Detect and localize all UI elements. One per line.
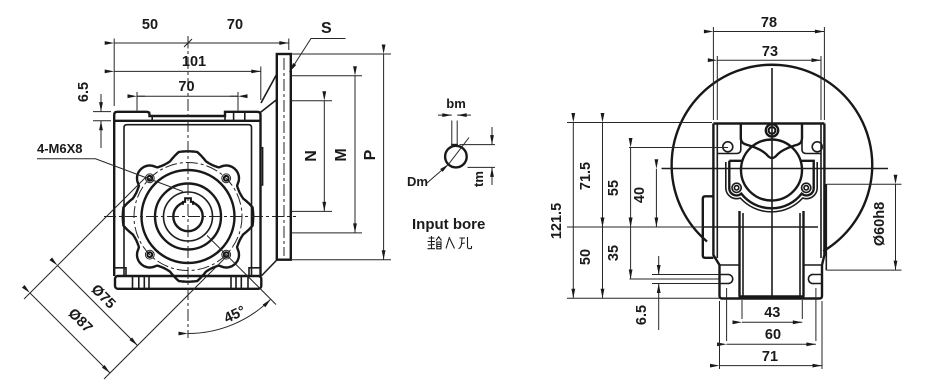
svg-text:121.5: 121.5 bbox=[549, 203, 565, 239]
diagonal extension line lower (tangent) bbox=[104, 255, 228, 379]
extension lines 73 bbox=[717, 56, 821, 120]
dimension 55 bbox=[606, 148, 631, 228]
dimension 71.5 bbox=[578, 123, 603, 228]
Dm leader through bore bbox=[427, 164, 449, 183]
svg-text:Ø60h8: Ø60h8 bbox=[872, 202, 888, 246]
svg-text:71: 71 bbox=[762, 349, 778, 365]
dimension 101 bbox=[114, 54, 261, 71]
svg-text:6.5: 6.5 bbox=[76, 82, 92, 102]
svg-text:35: 35 bbox=[606, 245, 622, 261]
dimension 121.5 bbox=[549, 123, 573, 299]
svg-text:40: 40 bbox=[632, 187, 648, 203]
svg-text:4-M6X8: 4-M6X8 bbox=[37, 141, 83, 156]
column side lines bbox=[740, 211, 804, 297]
diagonal extension line upper (tangent) bbox=[24, 177, 146, 299]
dimension M bbox=[291, 76, 362, 233]
svg-text:Input bore: Input bore bbox=[412, 216, 485, 233]
svg-text:bm: bm bbox=[446, 96, 466, 111]
neck transition top diagonals bbox=[260, 74, 277, 113]
dimension 73 bbox=[717, 44, 821, 60]
vertical centerline bbox=[187, 36, 189, 338]
vertical centerline right view bbox=[771, 68, 773, 298]
dimension 50 bbox=[114, 17, 188, 43]
keyway top line bbox=[451, 144, 458, 146]
extension line body right top bbox=[260, 67, 262, 101]
svg-text:70: 70 bbox=[178, 79, 194, 95]
input flange corner pad right bbox=[802, 124, 821, 154]
input flange plate side view bbox=[277, 54, 291, 260]
output axis horizontal bbox=[567, 226, 703, 228]
extension lines 60 bbox=[727, 288, 816, 341]
column inner lines bbox=[743, 213, 800, 297]
svg-text:50: 50 bbox=[142, 17, 158, 33]
dimension tm bbox=[471, 127, 492, 187]
output keyway tab bbox=[183, 198, 193, 205]
dimension 71 bbox=[720, 349, 823, 366]
svg-text:50: 50 bbox=[578, 249, 594, 265]
dimension 45 degrees arc bbox=[188, 299, 271, 333]
dimension 40 bbox=[632, 169, 656, 227]
side block step bottom-right bbox=[249, 268, 261, 276]
rail slot verticals left foot bbox=[133, 276, 150, 289]
bolt hole NE bbox=[222, 174, 231, 183]
dimension 60 bbox=[727, 327, 816, 344]
extension lines 43 bbox=[742, 300, 802, 319]
dimension N bbox=[291, 101, 332, 212]
bolt hole SE bbox=[222, 250, 231, 259]
svg-text:tm: tm bbox=[471, 171, 486, 187]
bolt hole NW bbox=[145, 174, 154, 183]
svg-text:70: 70 bbox=[227, 17, 243, 33]
gearbox body inner wall lines bbox=[124, 125, 252, 276]
extension lines 71 bbox=[720, 301, 823, 369]
svg-text:M: M bbox=[333, 148, 350, 161]
svg-text:6.5: 6.5 bbox=[634, 305, 650, 325]
horizontal centerline bbox=[104, 216, 296, 218]
foot top faces bbox=[720, 264, 823, 266]
face boss circle bbox=[142, 170, 235, 263]
caption Chinese 输入孔 (drawn strokes) bbox=[428, 236, 472, 249]
left foot slot bbox=[720, 274, 733, 283]
label S with leader bbox=[290, 20, 346, 72]
left output hub bbox=[703, 196, 714, 257]
svg-text:Dm: Dm bbox=[407, 174, 428, 189]
reference lines diameter 60h8 bbox=[827, 184, 902, 270]
right foot slot bbox=[808, 274, 822, 283]
dimension 78 bbox=[713, 15, 824, 32]
top cavity pocket bbox=[741, 124, 802, 158]
cavity outline inner (scallop around bore) bbox=[729, 161, 813, 209]
neck bearing cap edge bbox=[261, 148, 263, 185]
svg-text:N: N bbox=[303, 150, 320, 162]
dimension bm bbox=[438, 96, 471, 115]
dimension 50 right view bbox=[578, 227, 603, 298]
svg-text:73: 73 bbox=[762, 44, 778, 60]
top bolt hole bbox=[769, 127, 776, 134]
svg-text:43: 43 bbox=[764, 305, 780, 321]
extension line flange right top bbox=[288, 39, 290, 51]
extension lines 78 bbox=[713, 27, 824, 120]
input bore circle bbox=[445, 146, 467, 168]
top bolt boss ring bbox=[766, 124, 778, 136]
corner pad hole right bbox=[812, 142, 822, 152]
dimension diameter 75 bbox=[58, 266, 138, 346]
neck bottom diagonal bbox=[261, 260, 277, 276]
dimension 6.5 right view bbox=[634, 256, 659, 330]
dimension 6.5 left bbox=[76, 82, 111, 148]
lower boss hole right bbox=[802, 183, 811, 192]
slot edge extension lines 6.5 bbox=[652, 275, 720, 284]
bottom mounting rail bbox=[115, 276, 261, 289]
svg-text:S: S bbox=[321, 20, 332, 37]
flange centerline dashed bbox=[283, 58, 285, 256]
top pad step verticals bbox=[150, 112, 245, 121]
bolt circle dash-dot bbox=[134, 163, 242, 271]
dimension 43 bbox=[742, 305, 802, 322]
bearing housing circle bbox=[155, 184, 221, 250]
top reference line left bbox=[567, 122, 712, 124]
bolt hole SW bbox=[145, 250, 154, 259]
svg-text:71.5: 71.5 bbox=[578, 162, 594, 190]
svg-text:101: 101 bbox=[182, 54, 206, 70]
dimension P bbox=[291, 54, 391, 260]
seal circle bbox=[164, 192, 213, 241]
corner pad hole left bbox=[723, 142, 733, 152]
dimension 35 bbox=[606, 227, 631, 279]
bottom reference line left bbox=[567, 297, 719, 299]
dimension 70 top bbox=[184, 17, 289, 49]
input flange corner pad left bbox=[717, 124, 741, 154]
input bore circle bbox=[741, 140, 802, 201]
keyway slot sides (also bm extension lines) bbox=[452, 121, 457, 148]
svg-text:78: 78 bbox=[761, 15, 777, 31]
tm extension lines bbox=[460, 145, 496, 168]
output bore bbox=[173, 202, 202, 231]
45 degree ray from center bbox=[207, 236, 276, 305]
dimension 70 inner bbox=[137, 79, 238, 111]
right output spigot edge bbox=[825, 184, 827, 270]
dimension diameter 60h8 bbox=[872, 184, 896, 270]
svg-text:P: P bbox=[362, 149, 379, 160]
worm housing big circle bbox=[672, 65, 873, 251]
cavity outline outer offset bbox=[726, 162, 817, 212]
reference line 55 top bbox=[629, 147, 728, 149]
label 4-M6X8 with leader bbox=[37, 141, 183, 192]
extension line body left top bbox=[113, 39, 115, 107]
svg-text:55: 55 bbox=[606, 180, 622, 196]
lobed output flange (flower outline) bbox=[123, 151, 253, 281]
input axis horizontal bbox=[662, 168, 889, 170]
dimension diameter 87 bbox=[30, 293, 110, 373]
svg-text:60: 60 bbox=[765, 327, 781, 343]
bottom face line between feet bbox=[739, 295, 805, 297]
square body inner lines bbox=[717, 125, 821, 259]
gearbox body outer outline bbox=[114, 112, 260, 276]
rail slot verticals right foot bbox=[231, 276, 248, 289]
reference line 35 bottom (slot center) bbox=[630, 278, 720, 280]
square body outer outline with feet bbox=[713, 124, 824, 299]
lower boss hole left bbox=[732, 183, 741, 192]
side block step bottom-left bbox=[114, 268, 126, 276]
